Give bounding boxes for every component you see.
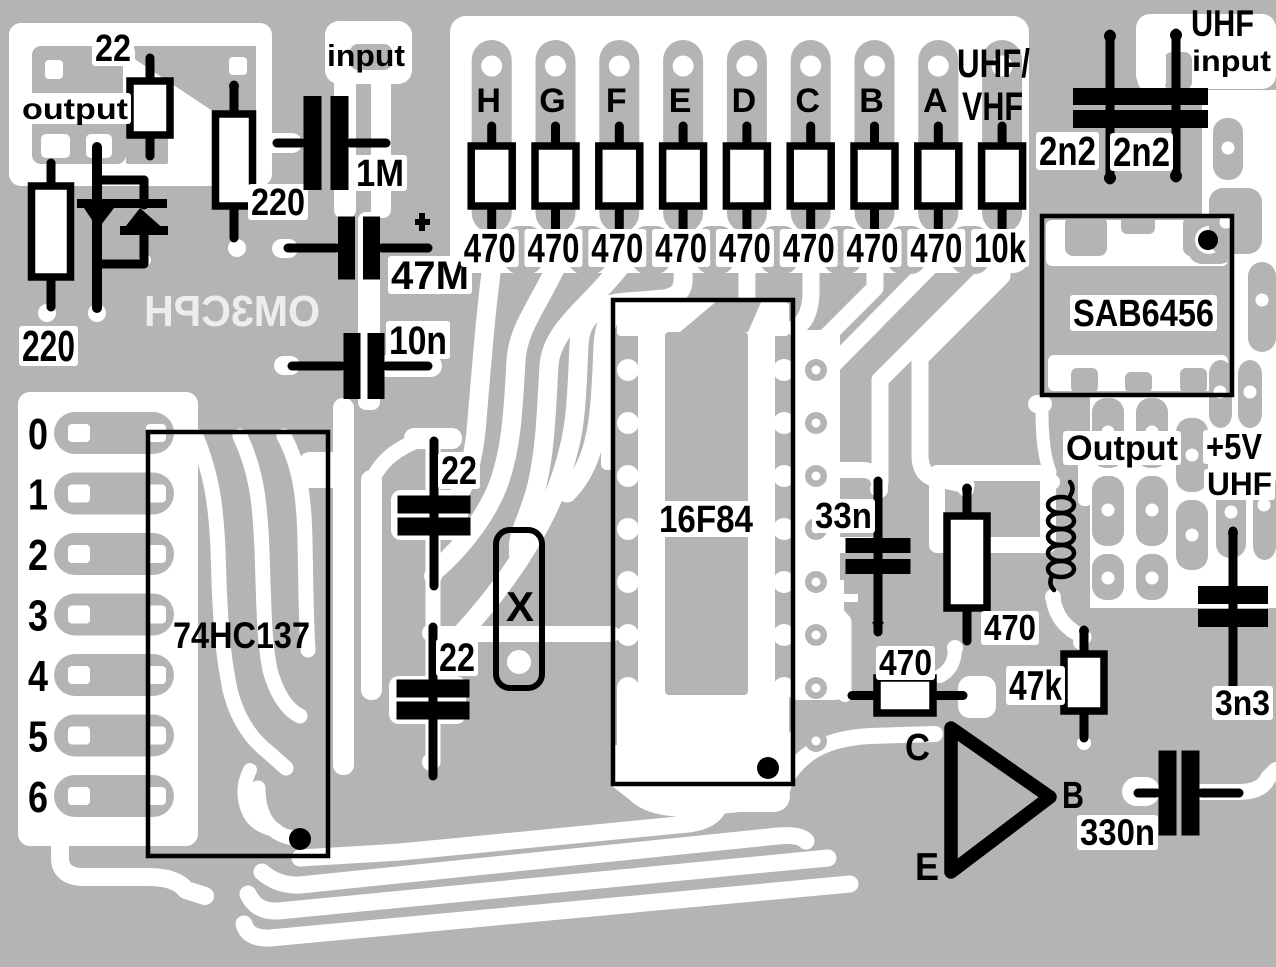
- node pour pad dot 3: [1256, 294, 1269, 307]
- label 220 left: [19, 326, 78, 366]
- wire 10n left pad trace: [274, 356, 300, 375]
- resistor R B top row: [870, 126, 879, 150]
- wire 47M right vertical trace: [358, 212, 380, 410]
- label output: [19, 93, 131, 124]
- capacitor C 33n: [874, 481, 883, 632]
- node pad 220 left bottom: [38, 304, 56, 322]
- node pad crystal bottom: [507, 650, 531, 674]
- node pad cap22b top: [422, 624, 440, 642]
- capacitor C 10n: [292, 362, 342, 371]
- svg-text:2n2: 2n2: [1039, 128, 1096, 174]
- svg-text:3: 3: [28, 592, 48, 641]
- node bottom stub 8: [951, 226, 989, 274]
- wire 16F84 left edge strip: [601, 332, 615, 470]
- node slot column A: [918, 40, 958, 233]
- node pad diode mid: [139, 254, 151, 266]
- node pour pad dot 14: [1102, 572, 1115, 585]
- node via right pour 3: [805, 465, 827, 487]
- node SAB bottom stub 2: [1125, 372, 1152, 393]
- node SAB top stub 2: [1121, 216, 1155, 234]
- node 16F84 top wedge: [680, 300, 762, 332]
- ic U2 pin1 dot: [289, 828, 311, 850]
- node pad 470v bottom: [947, 640, 963, 656]
- node pad crystal top: [509, 544, 529, 564]
- node pad top of column 4: [673, 56, 694, 77]
- node pad 47M left: [276, 240, 292, 256]
- svg-text:C: C: [795, 82, 820, 120]
- wire band pad bulge: [334, 457, 354, 477]
- wire 74HC137 right patch: [298, 452, 350, 488]
- node pour slot 9: [1092, 476, 1124, 546]
- wire fan F column: [518, 268, 619, 551]
- wire trace B to 330n: [1122, 777, 1160, 806]
- svg-text:470: 470: [879, 642, 932, 683]
- node pad output bottom-mid: [86, 134, 112, 158]
- wire left panel bottom tail: [60, 840, 205, 896]
- wire bundle trace 3: [248, 858, 828, 911]
- label 3n3: [1212, 686, 1273, 720]
- svg-text:5: 5: [28, 713, 48, 762]
- label 470 vertical: [981, 611, 1039, 645]
- wire trace 470 bottom to transistor area: [940, 648, 955, 676]
- node bottom stub 7: [887, 226, 925, 274]
- node pad coil bottom: [1045, 589, 1061, 605]
- node SAB bottom stub 3: [1180, 368, 1207, 393]
- label SAB6456: [1070, 295, 1217, 331]
- label UHF right: [1204, 469, 1275, 500]
- wire left connector panel pour: [18, 392, 198, 846]
- svg-text:Output: Output: [1066, 429, 1178, 468]
- wire fan C column hook: [795, 268, 811, 328]
- node slot row 3: [54, 594, 174, 636]
- label +5V: [1203, 430, 1265, 464]
- label value 470 column 1: [461, 229, 519, 267]
- capacitor C 2n2 right: [1172, 33, 1181, 178]
- node output island right: [132, 46, 256, 112]
- diode D2: [122, 208, 166, 231]
- wire fan B column: [817, 268, 875, 396]
- node pad 470v top: [958, 481, 974, 497]
- node slot row 0: [54, 412, 174, 454]
- node pad row 1 left: [68, 485, 90, 503]
- node pour slot 10: [1136, 476, 1168, 546]
- svg-text:E: E: [669, 82, 692, 120]
- node 16F84 pin pad right 3: [773, 465, 795, 487]
- svg-text:33n: 33n: [815, 495, 872, 536]
- wire under-16F84 pour: [612, 745, 792, 817]
- node 16F84 center column: [665, 332, 748, 695]
- node bottom stub 5: [760, 226, 798, 274]
- resistor R F top row: [615, 126, 624, 150]
- node 16F84 pin pad right 7: [773, 677, 795, 699]
- label + 47M polarity: [415, 219, 430, 225]
- node pour slot 6: [1092, 398, 1124, 468]
- svg-text:UHF: UHF: [1191, 3, 1254, 44]
- node 16F84 pin pad right 8: [773, 730, 795, 752]
- node slot column F: [599, 40, 639, 233]
- node 16F84 pin pad right 6: [773, 624, 795, 646]
- node pour pad dot 1: [1222, 142, 1235, 155]
- node slot row 5: [54, 715, 174, 757]
- node pad 470h left: [837, 686, 853, 702]
- svg-text:470: 470: [719, 225, 771, 271]
- svg-text:220: 220: [251, 182, 305, 224]
- svg-text:H: H: [476, 82, 501, 120]
- node pad coil top: [1044, 474, 1060, 490]
- resistor R 22 top-left: [146, 58, 155, 85]
- svg-text:22: 22: [441, 449, 477, 493]
- svg-text:0: 0: [28, 410, 48, 459]
- label 2n2 left: [1036, 132, 1099, 170]
- label 22 top-left: [92, 30, 134, 66]
- wire fan H column: [447, 268, 492, 512]
- ic U1 16F84 outline: [613, 300, 793, 784]
- svg-text:47k: 47k: [1009, 662, 1062, 709]
- wire channel between islands: [123, 46, 135, 118]
- svg-text:470: 470: [910, 225, 962, 271]
- node bottom stub 1: [505, 226, 543, 274]
- node bottom stub 3: [632, 226, 670, 274]
- svg-text:220: 220: [22, 322, 75, 371]
- label 33n: [812, 499, 875, 533]
- wire input trace vertical right: [371, 78, 391, 218]
- svg-text:D: D: [732, 82, 757, 120]
- wire cap22a plate blob: [391, 490, 468, 540]
- node via right pour 7: [805, 677, 827, 699]
- node pad row 6 right: [146, 787, 166, 805]
- wire bundle trace 4: [244, 884, 850, 938]
- node pour slot 5: [1238, 360, 1262, 428]
- wire ring trace around 470/coil: [937, 473, 1048, 545]
- node pad row 5 left: [68, 727, 90, 745]
- node pad top of column 6: [800, 56, 821, 77]
- resistor R E top row: [679, 126, 688, 150]
- wire fan 10k column: [880, 258, 1002, 482]
- label 22 b: [436, 639, 478, 676]
- node pad 47k bottom: [1077, 736, 1091, 750]
- label value 470 column 3: [588, 229, 646, 267]
- svg-text:A: A: [923, 82, 948, 120]
- svg-text:470: 470: [847, 225, 899, 271]
- wire 74HC137 stripe 3: [284, 436, 308, 650]
- node pad top of column 5: [736, 56, 757, 77]
- node pad 1M left lead: [257, 135, 273, 151]
- wire trace 330n to right edge: [1199, 770, 1276, 792]
- svg-text:+5V: +5V: [1206, 426, 1262, 467]
- node slot column D: [727, 40, 767, 233]
- wire trace SAB pad to coil: [1042, 412, 1050, 472]
- node via right pour 6: [805, 624, 827, 646]
- node slot column 9: [982, 40, 1022, 233]
- node 16F84 pin pad left 8: [617, 730, 639, 752]
- node 16F84 pin pad left 2: [617, 412, 639, 434]
- node pour pad dot 10: [1146, 504, 1159, 517]
- capacitor C 22 b: [429, 627, 438, 776]
- node pad row 6 left: [68, 787, 90, 805]
- wire trace 470h right blob: [958, 676, 996, 718]
- wire trace right pads to 470: [838, 470, 880, 490]
- node pour slot 13: [1092, 554, 1124, 600]
- svg-text:22: 22: [439, 636, 475, 680]
- resistor R A top row: [934, 126, 943, 150]
- label value 470 column 7: [844, 229, 902, 267]
- resistor R D top row: [742, 126, 751, 150]
- wire cap22a top blob: [404, 428, 462, 449]
- wire fan A column: [821, 258, 938, 688]
- svg-text:470: 470: [528, 225, 580, 271]
- label value 470 column 5: [716, 229, 774, 267]
- label 2n2 right: [1110, 133, 1173, 171]
- node UHF-input pour pocket: [1164, 52, 1192, 90]
- node via right pour 2: [805, 412, 827, 434]
- wire 74HC137 bottom pads trace: [258, 788, 300, 840]
- label 47M: [388, 256, 472, 294]
- node pad top of column 9: [992, 56, 1013, 77]
- node slot row 6: [54, 775, 174, 817]
- label 22 a: [438, 452, 480, 489]
- resistor R 10k top row: [998, 126, 1007, 150]
- node pour pad dot 4: [1214, 386, 1227, 399]
- label 470 horizontal: [876, 646, 935, 680]
- label 16F84: [656, 501, 756, 537]
- wire trace 16F84 to 33n: [838, 537, 870, 553]
- node via right pour 4: [805, 518, 827, 540]
- resistor R G top row: [551, 126, 560, 150]
- svg-text:UHF: UHF: [1207, 466, 1272, 502]
- node pour slot 8: [1176, 418, 1208, 492]
- svg-text:C: C: [905, 727, 930, 769]
- node via right pour 1: [805, 359, 827, 381]
- node pad 10n left: [278, 358, 294, 374]
- node pad row 4 left: [68, 666, 90, 684]
- resistor R C top row: [806, 126, 815, 150]
- wire 16F84 bottom interior: [617, 688, 789, 782]
- svg-text:10n: 10n: [389, 319, 447, 363]
- ic U3 pin dot: [1198, 230, 1218, 250]
- label 330n: [1077, 815, 1158, 850]
- node SAB top stub 3: [1183, 216, 1216, 256]
- svg-text:SAB6456: SAB6456: [1073, 293, 1214, 335]
- wire right copper pour: [1090, 90, 1276, 608]
- capacitor C 1M: [277, 139, 302, 148]
- node pad row 2 left: [68, 545, 90, 563]
- svg-text:47M: 47M: [391, 254, 469, 298]
- node input island: [350, 44, 392, 70]
- node slot row 2: [54, 533, 174, 575]
- wire 74HC137 stripe 2: [240, 436, 300, 716]
- wire fan G column: [435, 268, 556, 571]
- node pad top of column 7: [864, 56, 885, 77]
- node pad cap22a bottom: [424, 567, 442, 585]
- node pour slot 3: [1248, 262, 1276, 352]
- svg-text:output: output: [22, 93, 128, 126]
- svg-text:input: input: [327, 38, 405, 73]
- wire top resistor-block ground pour: [450, 16, 1029, 273]
- wire input trace vertical left: [334, 78, 356, 218]
- wire UHF input pour: [1136, 14, 1276, 89]
- wire fan stripe 5: [567, 303, 630, 493]
- diode D1 D2 pair wiring: [92, 147, 102, 308]
- svg-text:UHF/: UHF/: [957, 42, 1030, 86]
- wire 47M left pad trace: [272, 239, 298, 258]
- wire input pad trace pour: [325, 21, 412, 84]
- wire trace blob to band2: [372, 440, 420, 480]
- node 16F84 pin pad left 5: [617, 571, 639, 593]
- diode D1: [77, 199, 167, 208]
- svg-text:470: 470: [984, 607, 1036, 648]
- ic U3 SAB6456 outline: [1042, 216, 1232, 395]
- svg-text:VHF: VHF: [962, 85, 1023, 129]
- label 10n: [386, 321, 450, 359]
- node pour slot 11: [1176, 500, 1208, 570]
- crystal X1 outline: [496, 530, 542, 688]
- node pour pad dot 15: [1146, 572, 1159, 585]
- wire trace cap22a to crystal: [426, 445, 441, 762]
- node 16F84 pin pad right 2: [773, 412, 795, 434]
- node 16F84 pin pad right 5: [773, 571, 795, 593]
- ic U2 74HC137 outline: [148, 432, 328, 856]
- wire vertical band right of 74HC137: [333, 398, 354, 775]
- node pad row 4 right: [146, 666, 166, 684]
- node slot column E: [663, 40, 703, 233]
- node pour slot 4: [1209, 360, 1232, 428]
- resistor R 47k: [1080, 630, 1089, 658]
- wire vertical band 2 right of 74HC137: [361, 470, 382, 700]
- svg-text:330n: 330n: [1080, 812, 1155, 853]
- node pad top of column 3: [609, 56, 630, 77]
- wire SAB corner pad: [1028, 395, 1052, 413]
- node bottom stub 4: [696, 226, 734, 274]
- node pad row 3 left: [68, 606, 90, 624]
- node SAB pin1 pad ring: [1188, 218, 1234, 264]
- wire 1M cap left lead trace: [254, 133, 302, 153]
- svg-text:470: 470: [783, 225, 835, 271]
- label 47k: [1006, 666, 1065, 705]
- node slot column H: [472, 40, 512, 233]
- node pad 220 mid bottom: [228, 239, 246, 257]
- svg-text:4: 4: [28, 652, 48, 701]
- node pour slot 12: [1216, 476, 1246, 558]
- wire coil side trace: [1078, 452, 1092, 506]
- node pour pad dot 2: [1220, 216, 1233, 229]
- node slot column B: [855, 40, 895, 233]
- capacitor C 330n: [1138, 789, 1157, 798]
- node pad 33n top: [870, 481, 886, 497]
- svg-text:2n2: 2n2: [1113, 129, 1170, 175]
- node pad row 3 right: [146, 606, 166, 624]
- resistor R 220 mid: [230, 85, 239, 118]
- node pad row 0 left: [68, 424, 90, 442]
- node pour pad dot 13: [1258, 499, 1271, 512]
- transistor Q1 outline: [951, 728, 1050, 872]
- node 16F84 pin pad right 4: [773, 518, 795, 540]
- wire SAB interior streak upper: [1046, 220, 1228, 266]
- node pour slot 7: [1136, 398, 1168, 468]
- label 1M: [353, 155, 407, 191]
- node slot column C: [791, 40, 831, 233]
- svg-text:16F84: 16F84: [659, 499, 753, 541]
- node bottom stub 6: [824, 226, 862, 274]
- label value 10k column 9: [971, 229, 1029, 267]
- wire fan E column: [463, 268, 683, 632]
- wire 16F84 right-side pour: [793, 330, 840, 700]
- node pour pad dot 5: [1244, 386, 1257, 399]
- node pad 47k top: [1073, 634, 1089, 650]
- node pad row 5 right: [146, 727, 166, 745]
- wire trace 16F84 to transistor C: [778, 734, 935, 798]
- node slot row 4: [54, 654, 174, 696]
- node pour slot 15: [1253, 470, 1276, 560]
- node via right pour 8: [805, 730, 827, 752]
- capacitor C 2n2 left: [1106, 34, 1115, 180]
- svg-text:3n3: 3n3: [1215, 684, 1270, 723]
- label value 470 column 2: [525, 229, 583, 267]
- node output island left: [32, 46, 126, 164]
- svg-text:1M: 1M: [356, 153, 404, 195]
- wire fan D column stub: [738, 268, 755, 300]
- wire SAB interior streak lower: [1048, 355, 1228, 391]
- wire trace coil bottom S-curve: [1053, 597, 1084, 637]
- label 220 mid: [248, 184, 308, 220]
- node pour pad dot 7: [1146, 426, 1159, 439]
- ic U1 pin dot: [757, 757, 779, 779]
- node pad top of column 2: [545, 56, 566, 77]
- node SAB bottom stub 1: [1071, 368, 1098, 393]
- capacitor C 3n3: [1229, 531, 1238, 703]
- svg-text:1: 1: [28, 471, 48, 520]
- wire trace crystal row: [435, 626, 612, 642]
- svg-text:10k: 10k: [974, 225, 1026, 271]
- node pad top of column 8: [928, 56, 949, 77]
- wire 74HC137 stripe 1: [196, 436, 286, 768]
- capacitor C 22 a: [430, 441, 439, 586]
- node pour pad dot 11: [1186, 529, 1199, 542]
- svg-text:E: E: [915, 846, 939, 889]
- svg-text:F: F: [606, 82, 627, 120]
- svg-text:470: 470: [464, 225, 516, 271]
- node pour pad dot 6: [1102, 426, 1115, 439]
- node slot column G: [536, 40, 576, 233]
- node silkscreen OM3CPH mirrored: [144, 287, 320, 336]
- wire bundle trace 2: [262, 836, 806, 886]
- inductor L1 coil: [1048, 497, 1074, 513]
- resistor R 470 vertical: [963, 488, 972, 520]
- node pad row 0 right: [146, 424, 166, 442]
- node pour slot 2: [1209, 188, 1262, 254]
- node pour slot 1: [1213, 118, 1243, 180]
- capacitor C 47M: [288, 244, 336, 253]
- node output island ext: [126, 118, 168, 164]
- node SAB top stub 1: [1065, 216, 1107, 256]
- node 16F84 pin pad left 3: [617, 465, 639, 487]
- svg-text:74HC137: 74HC137: [173, 615, 310, 656]
- node 16F84 pin pad left 6: [617, 624, 639, 646]
- node pad output top-left: [45, 60, 63, 79]
- svg-text:B: B: [1062, 775, 1084, 817]
- wire cap22b plate blob: [389, 676, 466, 724]
- node 16F84 pin pad right 1: [773, 359, 795, 381]
- node pour slot 14: [1136, 554, 1168, 600]
- wire 16F84 right inner band: [748, 306, 775, 710]
- node white plus mark: [822, 594, 858, 602]
- resistor R 470 horizontal: [852, 691, 881, 700]
- wire 74HC137 bottom curl: [244, 770, 276, 830]
- node slot row 1: [54, 473, 174, 515]
- node 16F84 pin pad left 1: [617, 359, 639, 381]
- svg-text:input: input: [1192, 45, 1271, 78]
- wire 16F84 left inner band: [638, 306, 665, 710]
- svg-text:X: X: [506, 583, 534, 630]
